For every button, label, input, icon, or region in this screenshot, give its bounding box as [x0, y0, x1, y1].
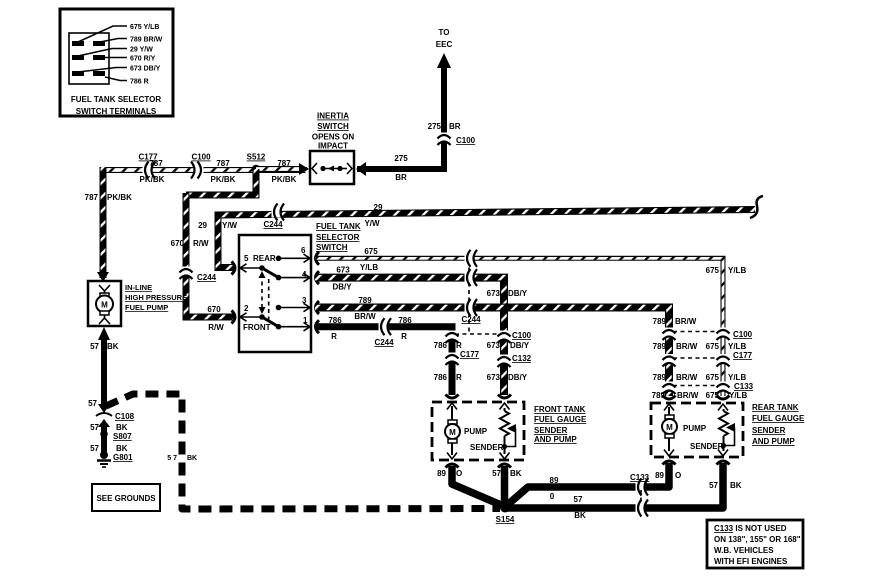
label 89 O (front)	[437, 469, 462, 478]
connector C100 on wire 275	[438, 133, 451, 146]
label 89 O (rear riser)	[655, 471, 681, 480]
svg-text:R: R	[456, 341, 462, 350]
svg-text:673: 673	[336, 266, 350, 275]
svg-text:89: 89	[655, 471, 664, 480]
svg-text:SENDER: SENDER	[752, 426, 786, 435]
svg-text:787: 787	[149, 159, 163, 168]
switch mechanical dashed link 2	[268, 279, 270, 325]
svg-text:6: 6	[301, 246, 306, 255]
dashed connector line C100 (front pair)	[455, 333, 501, 335]
svg-text:SEE GROUNDS: SEE GROUNDS	[96, 494, 156, 503]
connector C132 on wire 673	[498, 355, 511, 368]
label 57 BK (bottom horizontal)	[574, 495, 586, 520]
svg-text:C100: C100	[191, 153, 211, 162]
rear sender resistor	[719, 409, 728, 451]
in-line pump motor M1	[96, 285, 113, 324]
svg-text:C244: C244	[374, 338, 394, 347]
svg-text:BR/W: BR/W	[677, 391, 699, 400]
label 89 0 (horizontal)	[550, 476, 559, 501]
wire 57 BK from front sender to S154	[501, 466, 509, 505]
front pump motor	[445, 420, 460, 455]
svg-text:G801: G801	[113, 453, 133, 462]
svg-text:673 DB/Y: 673 DB/Y	[130, 66, 161, 73]
dashed connector line C244 group	[468, 260, 470, 332]
label 675 Y/LB (riser lower)	[706, 373, 747, 382]
label 787 PK/BK (segment 1)	[140, 159, 165, 184]
svg-text:R: R	[401, 332, 407, 341]
wire 57 BK from rear sender to S154	[507, 463, 723, 508]
svg-text:INERTIA: INERTIA	[317, 112, 349, 121]
label 275 BR (vertical)	[428, 122, 461, 131]
fuel tank selector switch box	[239, 235, 311, 352]
svg-text:O: O	[456, 469, 462, 478]
svg-text:670 R/Y: 670 R/Y	[130, 56, 156, 63]
svg-text:787: 787	[85, 193, 99, 202]
connector C133 on wire 675	[717, 382, 730, 395]
svg-text:BK: BK	[107, 342, 119, 351]
svg-text:789: 789	[653, 317, 667, 326]
svg-text:HIGH PRESSURE: HIGH PRESSURE	[125, 293, 187, 302]
label 789 BR/W (riser mid)	[653, 342, 698, 351]
svg-text:C177: C177	[460, 350, 480, 359]
connector C244 on wire 675	[465, 250, 478, 267]
connector C100 on wire 787	[191, 162, 204, 179]
arrow to EEC	[437, 53, 451, 68]
label 2 FRONT	[243, 304, 271, 332]
dashed connector line C133 (rear pair)	[673, 385, 719, 387]
svg-text:C244: C244	[461, 315, 481, 324]
svg-text:C100: C100	[733, 330, 753, 339]
svg-text:C100: C100	[456, 136, 476, 145]
flare and arrow at front box top (673 wire)	[498, 395, 511, 410]
front pump feed wire inside box	[451, 406, 453, 420]
label 29 Y/W (left)	[198, 221, 237, 230]
label 789 BR/W (riser bottom)	[652, 391, 699, 400]
svg-text:W.B. VEHICLES: W.B. VEHICLES	[714, 546, 774, 555]
rear sender wiper	[721, 423, 735, 448]
svg-text:Y/W: Y/W	[364, 219, 380, 228]
rear tank label	[752, 403, 805, 446]
svg-text:786 R: 786 R	[130, 79, 149, 86]
svg-text:BR/W: BR/W	[675, 317, 697, 326]
svg-text:675 Y/LB: 675 Y/LB	[130, 24, 159, 31]
svg-text:WITH EFI ENGINES: WITH EFI ENGINES	[714, 557, 788, 566]
svg-text:Y/W: Y/W	[222, 221, 238, 230]
label in-line high pressure fuel pump	[125, 283, 187, 312]
see grounds box	[92, 484, 160, 511]
svg-text:FUEL PUMP: FUEL PUMP	[125, 303, 168, 312]
svg-text:EEC: EEC	[436, 40, 453, 49]
svg-text:C108: C108	[115, 412, 135, 421]
terminal pins in legend	[72, 41, 105, 76]
legend leader lines	[78, 26, 127, 81]
svg-text:5: 5	[244, 254, 249, 263]
flare and arrow at front box bottom (57 wire)	[498, 453, 511, 468]
svg-text:3: 3	[302, 296, 307, 305]
label 675 Y/LB (horizontal)	[360, 247, 378, 272]
svg-text:DB/Y: DB/Y	[508, 289, 528, 298]
svg-text:BK: BK	[574, 511, 586, 520]
note box C133	[707, 520, 803, 568]
label 673 DB/Y (riser top)	[487, 289, 528, 298]
wire 673 DB/Y from pin 4 to front sender riser	[315, 278, 504, 395]
svg-text:BR/W: BR/W	[354, 312, 376, 321]
svg-text:29 Y/W: 29 Y/W	[130, 47, 153, 54]
svg-text:M: M	[101, 301, 108, 310]
connector C244 on wire 29	[272, 204, 285, 221]
connector C177 on wire 675	[717, 354, 730, 367]
wire 787 PK/BK from fuel pump up and right to S512	[100, 169, 307, 171]
svg-text:FUEL TANK: FUEL TANK	[316, 222, 361, 231]
label 57 BK (below pump)	[90, 342, 119, 351]
svg-text:PK/BK: PK/BK	[140, 175, 165, 184]
wire 787 PK/BK from S512 to inertia switch	[256, 168, 303, 170]
svg-text:SWITCH: SWITCH	[316, 243, 348, 252]
svg-text:C133 IS NOT USED: C133 IS NOT USED	[714, 524, 787, 533]
inertia switch box	[310, 151, 354, 184]
svg-text:675: 675	[706, 373, 720, 382]
svg-text:789: 789	[653, 373, 667, 382]
arrow into pump box bottom	[98, 327, 110, 340]
wire 89 O from rear pump to S154	[506, 463, 669, 506]
label 787 PK/BK (vertical segment)	[85, 193, 132, 202]
svg-text:89: 89	[437, 469, 446, 478]
connector C133 on wire 57	[636, 500, 649, 517]
arrow into inertia switch left	[299, 162, 310, 176]
switch pin numbers	[301, 246, 308, 325]
svg-text:PK/BK: PK/BK	[272, 175, 297, 184]
svg-text:57: 57	[709, 481, 718, 490]
svg-text:BR/W: BR/W	[676, 342, 698, 351]
front tank label	[534, 405, 587, 444]
svg-text:ON 138", 155" OR 168": ON 138", 155" OR 168"	[714, 535, 801, 544]
svg-text:AND PUMP: AND PUMP	[752, 437, 795, 446]
svg-text:BK: BK	[187, 455, 197, 462]
switch internal: rear contact line to pin 6	[276, 254, 310, 262]
in-line fuel pump box	[88, 281, 121, 326]
svg-text:C100: C100	[512, 331, 532, 340]
wire 89 O from front pump to S154	[452, 466, 501, 505]
svg-text:DB/Y: DB/Y	[510, 341, 530, 350]
svg-text:C244: C244	[263, 220, 283, 229]
svg-text:675: 675	[706, 266, 720, 275]
svg-text:S512: S512	[247, 153, 266, 162]
svg-text:673: 673	[487, 373, 501, 382]
front tank box (dashed)	[432, 402, 524, 460]
rear pump feed wire inside box	[668, 407, 670, 415]
thick dashed ground wire from C108 area to S154	[106, 394, 500, 509]
label 786 R (riser mid)	[434, 341, 462, 350]
svg-text:FUEL TANK SELECTOR: FUEL TANK SELECTOR	[71, 95, 161, 104]
switch internal: pin 3 line	[276, 303, 310, 311]
svg-text:29: 29	[198, 221, 207, 230]
dashed connector line C133 (bottom)	[640, 490, 642, 504]
svg-text:BR: BR	[449, 122, 461, 131]
svg-text:57: 57	[88, 399, 97, 408]
svg-text:SENDER: SENDER	[534, 426, 568, 435]
wire 670 R/W riser down to switch pin 2	[186, 193, 234, 317]
splice S512	[252, 165, 260, 173]
svg-text:PUMP: PUMP	[683, 424, 707, 433]
connector C100 on wire 786	[446, 331, 459, 344]
label 275 BR (horizontal)	[394, 154, 408, 182]
svg-text:BK: BK	[116, 423, 128, 432]
connector C100 on wire 675	[717, 328, 730, 341]
label 57 BK (front)	[492, 469, 522, 478]
front sender resistor	[500, 408, 509, 454]
svg-text:R: R	[331, 332, 337, 341]
legend terminal labels	[130, 24, 163, 86]
svg-text:786: 786	[434, 341, 448, 350]
label 57 BK (S807-G801)	[90, 444, 128, 453]
flare and arrow at rear box top (789 wire)	[663, 396, 676, 411]
wire end flares at switch right edge	[316, 252, 320, 333]
svg-text:FUEL GAUGE: FUEL GAUGE	[534, 415, 587, 424]
connector C177 on wire 787	[143, 162, 156, 179]
svg-text:R/W: R/W	[193, 239, 209, 248]
wire 29 Y/W long run with end curl	[218, 210, 755, 268]
label 789 BR/W (horizontal)	[354, 296, 376, 321]
svg-text:SELECTOR: SELECTOR	[316, 233, 360, 242]
svg-text:BR/W: BR/W	[676, 373, 698, 382]
connector C244 on wire 673	[465, 269, 478, 286]
svg-text:Y/LB: Y/LB	[728, 266, 746, 275]
svg-text:R/W: R/W	[208, 323, 224, 332]
svg-text:R: R	[456, 373, 462, 382]
svg-text:PK/BK: PK/BK	[211, 175, 236, 184]
svg-text:SWITCH TERMINALS: SWITCH TERMINALS	[76, 107, 157, 116]
wire 57 BK C108 to S807	[101, 424, 107, 452]
svg-text:REAR: REAR	[253, 254, 276, 263]
svg-text:5 7: 5 7	[167, 455, 177, 462]
svg-text:BK: BK	[730, 481, 742, 490]
label 5 REAR	[244, 254, 276, 263]
flare and arrow at rear box bottom (57 wire)	[717, 450, 730, 465]
label 787 PK/BK (segment 2)	[211, 159, 236, 184]
inertia switch label	[312, 112, 354, 151]
front sender wiper	[502, 424, 516, 449]
svg-text:57: 57	[574, 495, 583, 504]
svg-text:SENDER: SENDER	[470, 443, 504, 452]
svg-text:673: 673	[487, 289, 501, 298]
svg-text:786: 786	[328, 316, 342, 325]
switch blade 5-4	[262, 268, 281, 280]
connector C100 on wire 789	[663, 328, 676, 341]
svg-text:275: 275	[428, 122, 442, 131]
label 786 R (horizontal seg2)	[398, 316, 412, 341]
svg-text:C244: C244	[197, 273, 217, 282]
svg-text:275: 275	[394, 154, 408, 163]
svg-text:Y/LB: Y/LB	[728, 342, 746, 351]
svg-text:BK: BK	[116, 444, 128, 453]
label 787 PK/BK (segment 3)	[272, 159, 297, 184]
label 673 DB/Y (riser mid)	[487, 341, 530, 350]
svg-text:Y/LB: Y/LB	[728, 373, 746, 382]
legend caption	[71, 95, 161, 116]
legend box: fuel tank selector switch terminals	[60, 9, 173, 116]
flare and arrow at rear box top (675 wire)	[717, 396, 730, 411]
svg-text:675: 675	[706, 342, 720, 351]
svg-text:AND PUMP: AND PUMP	[534, 435, 577, 444]
label 673 DB/Y (riser lower)	[487, 373, 528, 382]
label 675 Y/LB (riser bottom)	[706, 391, 748, 400]
svg-text:789: 789	[653, 342, 667, 351]
svg-text:670: 670	[171, 239, 185, 248]
label 673 DB/Y (horizontal)	[332, 266, 352, 292]
connector C133 on wire 89	[636, 479, 649, 496]
connector C100 on wire 673	[498, 331, 511, 344]
svg-text:S807: S807	[113, 432, 132, 441]
svg-text:M: M	[449, 428, 456, 437]
fuel tank selector switch label	[316, 222, 361, 252]
wire 29 continuation brace end	[750, 196, 763, 218]
svg-text:OPENS ON: OPENS ON	[312, 133, 354, 142]
connector C244 on wire 789	[465, 299, 478, 316]
inertia switch contacts	[312, 163, 352, 174]
label 789 BR/W (riser lower)	[653, 373, 698, 382]
svg-text:C133: C133	[734, 382, 754, 391]
svg-text:C132: C132	[512, 354, 532, 363]
wire 275 BR from inertia switch to EEC	[357, 60, 444, 169]
svg-text:FUEL GAUGE: FUEL GAUGE	[752, 414, 805, 423]
svg-text:57: 57	[492, 469, 501, 478]
dashed connector line C100 (rear pair)	[673, 331, 719, 333]
svg-text:89: 89	[550, 476, 559, 485]
svg-text:0: 0	[550, 492, 555, 501]
switch internal: pin 1 line	[279, 323, 311, 331]
svg-text:FRONT: FRONT	[243, 323, 271, 332]
rear tank box (dashed)	[651, 403, 743, 457]
svg-text:2: 2	[244, 304, 249, 313]
svg-text:29: 29	[374, 203, 383, 212]
wire 675 Y/LB from pin 6 to rear sender	[315, 258, 723, 396]
label 675 Y/LB (riser mid)	[706, 342, 747, 351]
svg-text:787: 787	[216, 159, 230, 168]
splice S154	[500, 503, 510, 513]
connector C177 on wire 789	[663, 354, 676, 367]
switch internal: pin 5 input line and pivot	[240, 264, 265, 272]
wire 787 drop from S512 to 670 riser	[186, 169, 256, 195]
wire 787 PK/BK vertical down to fuel pump	[102, 167, 104, 278]
svg-text:57: 57	[90, 444, 99, 453]
wire 789 BR/W from pin 3 to rear pump riser	[315, 308, 669, 397]
svg-text:PUMP: PUMP	[464, 427, 488, 436]
svg-text:Y/LB: Y/LB	[729, 391, 747, 400]
rear pump motor	[662, 415, 677, 451]
connector C177 on wire 786	[446, 353, 459, 366]
svg-text:BR: BR	[395, 173, 407, 182]
label 786 R (riser lower)	[434, 373, 462, 382]
svg-text:675: 675	[364, 247, 378, 256]
svg-text:57: 57	[90, 342, 99, 351]
switch internal: pin 2 input line and pivot	[240, 313, 265, 321]
wire 57 BK from pump box down to grounds	[101, 339, 107, 406]
flare and arrow at rear box bottom (89 wire)	[663, 450, 676, 465]
label 670 R/W (horizontal)	[207, 305, 224, 332]
ground G801	[97, 451, 111, 467]
label 57 BK (rear riser)	[709, 481, 742, 490]
connector C244 on wire 786	[379, 318, 392, 335]
arrow into inertia switch right	[356, 162, 366, 176]
switch blade 2-1	[262, 317, 281, 330]
connector C108 arrows and arcs	[96, 404, 112, 427]
svg-text:DB/Y: DB/Y	[332, 283, 352, 292]
svg-text:Y/LB: Y/LB	[360, 263, 378, 272]
svg-text:IN-LINE: IN-LINE	[125, 283, 152, 292]
svg-text:670: 670	[207, 305, 221, 314]
svg-text:BK: BK	[510, 469, 522, 478]
svg-text:789: 789	[358, 296, 372, 305]
svg-text:PK/BK: PK/BK	[107, 193, 132, 202]
svg-text:SWITCH: SWITCH	[317, 122, 349, 131]
switch mechanical dashed link with arrows	[259, 271, 266, 314]
label 29 Y/W (right)	[364, 203, 383, 228]
svg-text:1: 1	[303, 316, 308, 325]
label 789 BR/W (riser top)	[653, 317, 697, 326]
svg-text:O: O	[675, 471, 681, 480]
svg-text:786: 786	[398, 316, 412, 325]
svg-text:REAR TANK: REAR TANK	[752, 403, 799, 412]
switch internal: pin 4 line	[279, 273, 311, 281]
wire end flares at switch left edge	[232, 262, 236, 324]
label 670 R/W (vertical)	[171, 239, 209, 248]
svg-text:789 BR/W: 789 BR/W	[130, 37, 163, 44]
svg-text:787: 787	[277, 159, 291, 168]
wire 786 R from pin 1 to front pump riser	[315, 327, 452, 395]
svg-text:57: 57	[90, 423, 99, 432]
svg-text:673: 673	[487, 341, 501, 350]
label TO EEC	[436, 28, 453, 49]
svg-text:4: 4	[302, 270, 307, 279]
flare and arrow at front box bottom (89 wire)	[446, 453, 459, 468]
svg-text:C177: C177	[733, 351, 753, 360]
splice S807	[100, 430, 108, 438]
connector C244 on wire 670	[180, 267, 193, 280]
dashed connector line C177 (rear pair)	[673, 357, 719, 359]
label 675 Y/LB (riser top)	[706, 266, 747, 275]
label 57 BK (C108-S807)	[90, 423, 128, 432]
svg-text:FRONT TANK: FRONT TANK	[534, 405, 586, 414]
label 786 R (horizontal seg1)	[328, 316, 342, 341]
svg-text:M: M	[666, 423, 673, 432]
label 57 BK on dashed ground wire	[167, 455, 197, 462]
arrow into pump box top	[97, 272, 109, 282]
svg-text:IMPACT: IMPACT	[318, 142, 348, 151]
svg-text:TO: TO	[439, 28, 450, 37]
svg-text:786: 786	[434, 373, 448, 382]
svg-text:C133: C133	[630, 473, 650, 482]
connector C133 on wire 789	[663, 382, 676, 395]
svg-text:DB/Y: DB/Y	[508, 373, 528, 382]
flare and arrow at front box top (786 wire)	[446, 395, 459, 410]
svg-text:S154: S154	[496, 515, 515, 524]
